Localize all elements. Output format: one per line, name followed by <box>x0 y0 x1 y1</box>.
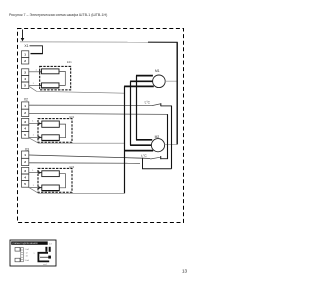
wire: X2 terminal 5 long run to node V3 <box>29 138 125 143</box>
svg-text:t,°С: t,°С <box>145 100 151 104</box>
svg-text:: 12: : 12 <box>25 252 28 254</box>
legend plug pins <box>45 247 47 252</box>
wire: SK2 output up <box>167 114 169 158</box>
svg-text:Х2: Х2 <box>24 98 28 102</box>
wire: M1 phase leads <box>136 75 153 77</box>
wire: phase vertical V3 <box>124 86 126 193</box>
wire: X1 terminal 5 to heater EK1 lower <box>29 84 42 86</box>
svg-text:1: 1 <box>34 253 35 255</box>
svg-text:1: 1 <box>24 153 26 157</box>
svg-text:1 №2: 1 №2 <box>25 248 29 251</box>
svg-text:3 №4: 3 №4 <box>25 259 29 262</box>
svg-text:4: 4 <box>24 127 26 131</box>
heater box EK3 dashed outline <box>38 168 72 192</box>
svg-text:t,°С: t,°С <box>141 154 147 158</box>
svg-text:4: 4 <box>24 77 26 81</box>
motor M2 <box>151 139 164 152</box>
svg-text:5: 5 <box>24 182 26 186</box>
wire: M2 to right bus (grey) <box>165 143 177 145</box>
svg-text:4: 4 <box>24 176 26 180</box>
heater element EK2 upper <box>42 121 60 127</box>
connector X1 terminals 1-5 <box>22 51 29 89</box>
heater element EK1 upper <box>42 69 60 74</box>
svg-text:Х1: Х1 <box>24 44 28 48</box>
svg-text:СХЕМА ПОДКЛЮЧЕНИЯ: СХЕМА ПОДКЛЮЧЕНИЯ <box>12 242 38 245</box>
heater box EK1 dashed outline <box>40 66 71 90</box>
wire: top supply bus <box>20 41 148 43</box>
wire: EK3 series link <box>59 174 65 188</box>
svg-text:2: 2 <box>24 160 26 164</box>
heater element EK3 lower <box>42 185 60 191</box>
svg-text:2: 2 <box>24 59 26 63</box>
wire: X1 terminal 1 to bus loop <box>30 46 43 54</box>
wire: phase vertical V2 <box>130 81 132 145</box>
wire: SK2 input loop <box>143 158 172 169</box>
legend title bar <box>11 241 48 244</box>
wire: X3 terminal 5 long run to node V3 <box>29 187 125 193</box>
svg-text:2: 2 <box>24 111 26 115</box>
wire: M2 phase leads <box>136 139 152 141</box>
svg-text:: 34: : 34 <box>25 256 28 258</box>
wire: phase vertical V1 <box>136 76 138 140</box>
heater box EK2 dashed outline <box>38 119 72 143</box>
heater element EK1 lower <box>42 83 60 88</box>
svg-text:3: 3 <box>24 120 26 124</box>
wire: X3 terminal 1 to thermal switch SK2 <box>29 155 151 159</box>
legend tiny annotations <box>25 248 35 262</box>
svg-text:ЕК1: ЕК1 <box>67 60 72 64</box>
svg-text:5: 5 <box>24 84 26 88</box>
svg-text:1: 1 <box>24 104 26 108</box>
connector X2 terminals 1-5 <box>22 102 29 138</box>
wire: right vertical from bus <box>176 42 178 144</box>
motor M1 <box>153 75 166 88</box>
svg-text:ЕК2: ЕК2 <box>70 115 75 119</box>
legend terminal symbol lower <box>15 258 20 262</box>
wire: X1 terminal 3 to heater EK1 <box>29 71 42 73</box>
wire: EK2 series link <box>59 124 65 138</box>
svg-text:Рисунок 7 – Электрическая схем: Рисунок 7 – Электрическая схема шкафа ШТ… <box>9 13 107 17</box>
dashed enclosure border <box>18 29 184 223</box>
svg-text:13: 13 <box>182 268 188 273</box>
legend terminal symbol upper <box>15 248 20 252</box>
wire: EK1 series link <box>59 71 65 85</box>
legend cable clamp <box>38 253 49 262</box>
svg-text:ЕК3: ЕК3 <box>70 165 75 169</box>
wire: X2 terminal 3 to heater EK2 <box>29 123 42 125</box>
svg-text:3: 3 <box>24 169 26 173</box>
wire: X1 terminal 5 long run to node V3 <box>29 86 125 93</box>
wire: X3 terminal 4 to heater EK3 lower <box>29 187 42 189</box>
wire: X2 terminal 2 long run <box>29 113 168 114</box>
heater element EK2 lower <box>42 135 60 141</box>
wire: X2 terminal 1 to thermal switch SK1 <box>29 104 152 106</box>
svg-text:поз.1: поз.1 <box>43 264 47 266</box>
wire: X3 terminal 2 run <box>29 162 140 165</box>
wire: SK1 output down <box>171 106 173 169</box>
power input arrow <box>21 30 25 42</box>
svg-text:М1: М1 <box>155 69 160 73</box>
svg-text:5: 5 <box>24 133 26 137</box>
heater element EK3 upper <box>42 171 60 177</box>
svg-text:М2: М2 <box>155 135 160 139</box>
wire: X2 terminal 4 to heater EK2 lower <box>29 136 42 138</box>
legend strip line <box>21 248 24 262</box>
svg-text:1: 1 <box>24 52 26 56</box>
connector X3 terminals 1-5 <box>22 151 29 187</box>
wire: X3 terminal 3 to heater EK3 <box>29 172 42 174</box>
legend box <box>10 240 56 266</box>
svg-text:3: 3 <box>24 70 26 74</box>
wire: M1 to right bus (grey) <box>165 80 177 82</box>
